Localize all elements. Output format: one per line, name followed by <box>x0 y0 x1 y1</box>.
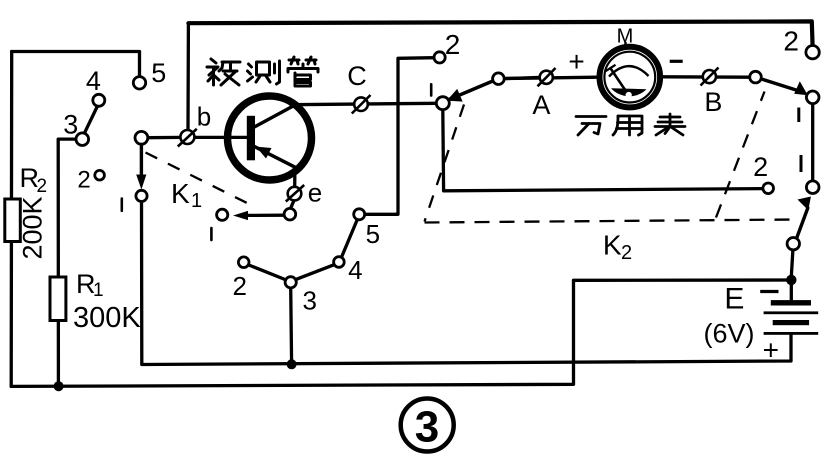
svg-text:b: b <box>197 102 211 132</box>
svg-text:4: 4 <box>348 255 362 285</box>
svg-text:5: 5 <box>366 219 380 249</box>
svg-text:2: 2 <box>783 26 799 57</box>
svg-text:2: 2 <box>445 29 461 60</box>
svg-text:K: K <box>171 178 190 209</box>
svg-text:300K: 300K <box>73 302 141 334</box>
svg-text:3: 3 <box>63 110 78 140</box>
svg-text:200K: 200K <box>18 196 48 259</box>
svg-text:5: 5 <box>151 58 166 88</box>
svg-text:2: 2 <box>232 271 246 301</box>
svg-text:M: M <box>617 26 634 48</box>
svg-text:+: + <box>568 46 584 77</box>
svg-text:(6V): (6V) <box>703 319 754 349</box>
svg-text:2: 2 <box>37 176 48 197</box>
svg-text:B: B <box>704 87 722 117</box>
svg-text:A: A <box>532 90 550 120</box>
svg-text:3: 3 <box>415 403 439 452</box>
svg-text:2: 2 <box>753 152 768 182</box>
svg-text:1: 1 <box>93 280 104 301</box>
svg-text:E: E <box>724 283 744 316</box>
svg-text:K: K <box>603 230 622 261</box>
svg-text:1: 1 <box>191 190 202 212</box>
svg-text:4: 4 <box>86 66 101 96</box>
svg-text:e: e <box>308 178 322 208</box>
svg-text:3: 3 <box>302 286 316 316</box>
svg-text:+: + <box>763 335 779 366</box>
svg-text:C: C <box>347 61 367 91</box>
svg-text:2: 2 <box>621 242 632 264</box>
svg-text:2: 2 <box>77 167 90 194</box>
